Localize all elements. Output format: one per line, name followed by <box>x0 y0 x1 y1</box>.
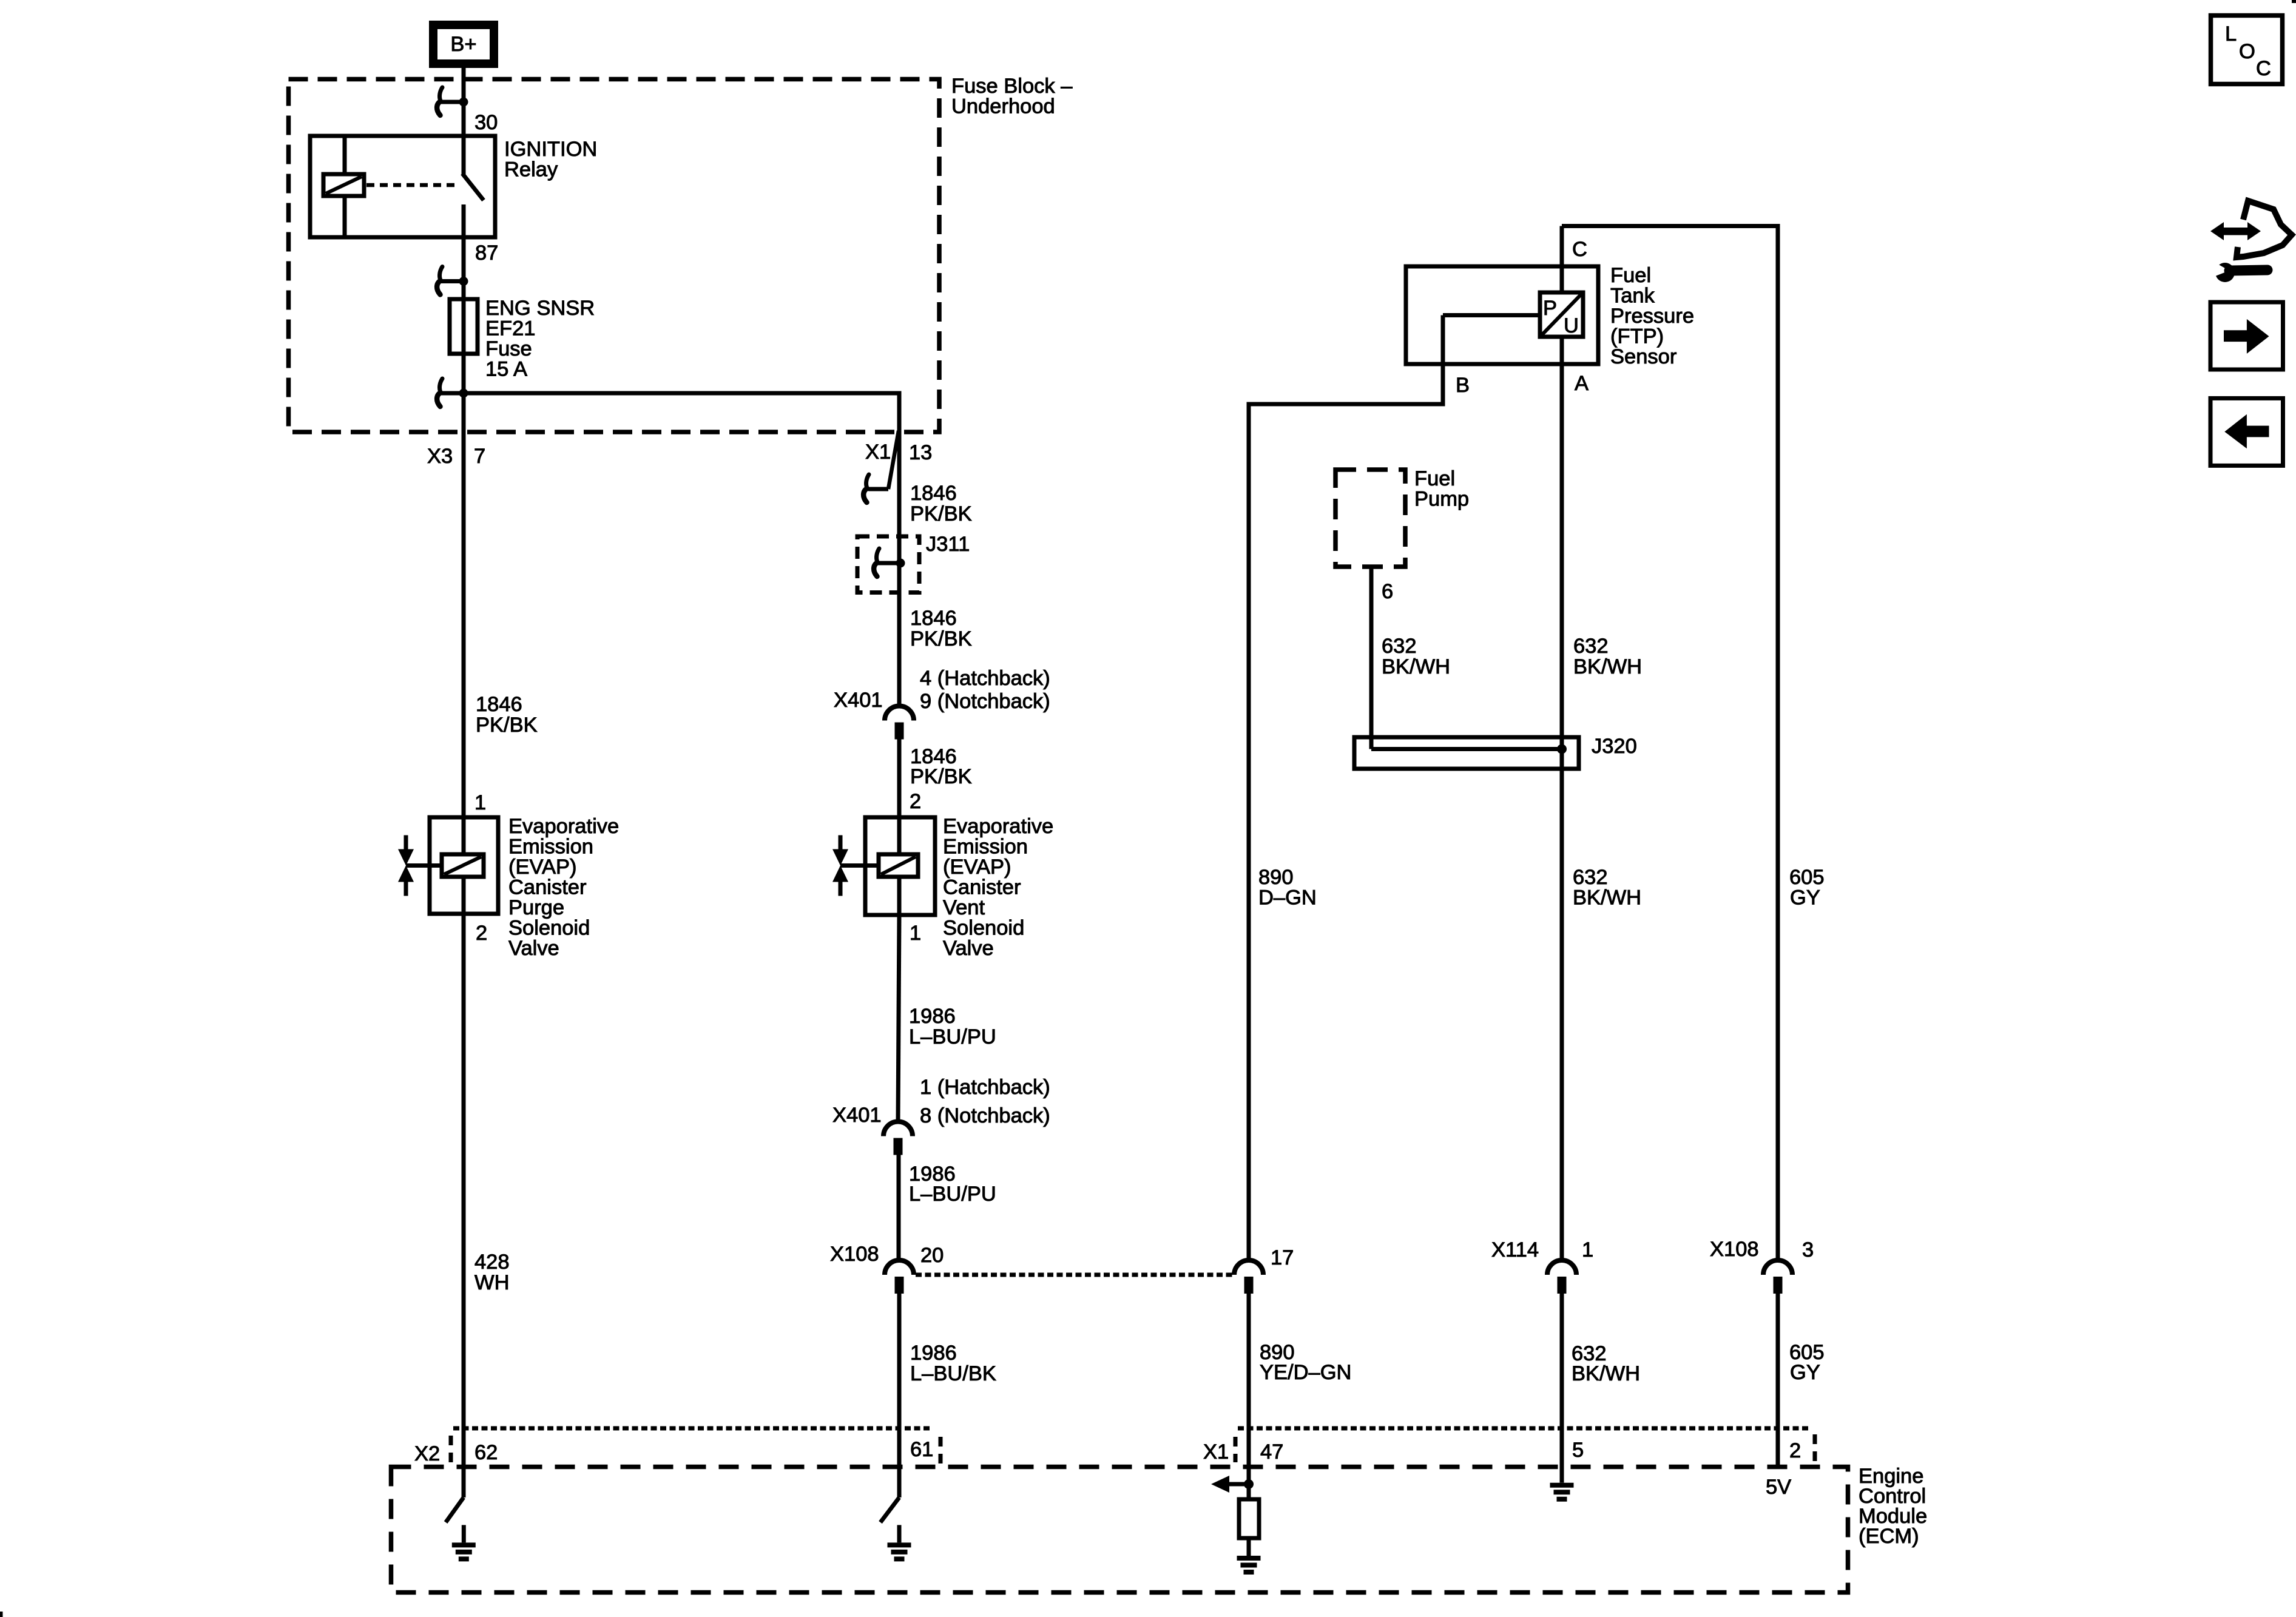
FTP sensor box <box>1406 266 1598 364</box>
dotted connector row X1 <box>1238 1426 1809 1431</box>
svg-text:C: C <box>2256 57 2271 80</box>
wire A pin <box>1560 337 1564 1260</box>
connector X114 1 <box>1547 1260 1576 1294</box>
svg-text:Fuel: Fuel <box>1610 264 1651 287</box>
svg-text:632: 632 <box>1573 866 1608 889</box>
ECM label <box>1859 1465 1927 1548</box>
svg-text:2: 2 <box>910 790 921 813</box>
relay label <box>504 138 597 181</box>
svg-text:Canister: Canister <box>508 876 586 899</box>
svg-text:J311: J311 <box>926 533 970 556</box>
svg-text:1: 1 <box>474 791 486 814</box>
relay coil <box>323 174 364 196</box>
svg-text:7: 7 <box>474 445 485 468</box>
svg-text:YE/D–GN: YE/D–GN <box>1260 1361 1351 1384</box>
svg-text:A: A <box>1575 372 1589 395</box>
wire 890 YE/D-GN label <box>1260 1341 1351 1384</box>
svg-text:X1: X1 <box>1203 1440 1229 1463</box>
ground pin 62 <box>452 1545 476 1559</box>
back arrow icon <box>2210 398 2283 465</box>
svg-text:IGNITION: IGNITION <box>504 138 597 161</box>
svg-text:U: U <box>1564 314 1579 337</box>
wire 1846 PK/BK label left <box>476 693 538 737</box>
connector X401 lower <box>883 1122 913 1155</box>
FTP sensor top rail wire <box>1562 224 1780 228</box>
X114 1 labels <box>1491 1238 1593 1261</box>
svg-text:87: 87 <box>475 241 498 265</box>
svg-text:890: 890 <box>1258 866 1294 889</box>
svg-text:6: 6 <box>1382 580 1393 603</box>
wire 1986 L-BU/BK label <box>910 1342 996 1385</box>
wire branch down to X1 13 <box>897 391 902 707</box>
vent valve symbol <box>832 836 848 896</box>
svg-text:X108: X108 <box>830 1243 879 1266</box>
svg-text:9 (Notchback): 9 (Notchback) <box>920 690 1050 713</box>
wire X401 to X108 <box>897 1154 901 1260</box>
dotted connector line X108 to 17 <box>916 1273 1234 1277</box>
svg-text:5V: 5V <box>1766 1476 1791 1499</box>
ECM switch to ground pin 62 <box>446 1497 464 1542</box>
svg-text:Fuse Block –: Fuse Block – <box>951 75 1073 98</box>
fuse block underhood dashed box <box>289 79 940 433</box>
ECM dashed box <box>391 1467 1848 1593</box>
forward arrow icon <box>2210 302 2283 370</box>
ECM switch to ground pin 61 <box>880 1497 899 1542</box>
connector X108 3 <box>1763 1260 1792 1294</box>
svg-text:X3: X3 <box>427 445 453 468</box>
connector X1 13 terminal <box>863 431 899 502</box>
svg-text:Tank: Tank <box>1610 285 1655 308</box>
svg-text:B+: B+ <box>450 33 476 56</box>
svg-text:X401: X401 <box>834 689 883 712</box>
svg-text:(FTP): (FTP) <box>1610 325 1664 348</box>
X401 lower labels <box>832 1076 1050 1127</box>
dotted connector row X2 <box>453 1426 933 1431</box>
wire X401 to EVAP vent <box>897 739 902 818</box>
node X2 62 labels <box>414 1441 498 1465</box>
svg-text:X401: X401 <box>832 1104 882 1127</box>
svg-text:3: 3 <box>1802 1238 1814 1261</box>
node X1 47 labels <box>1203 1440 1283 1463</box>
svg-text:GY: GY <box>1790 1361 1820 1384</box>
svg-text:X1: X1 <box>865 441 891 464</box>
svg-text:BK/WH: BK/WH <box>1573 886 1641 910</box>
fuse label <box>485 297 595 381</box>
splice pack J320 <box>1354 737 1579 769</box>
svg-text:Valve: Valve <box>943 937 994 960</box>
svg-text:1846: 1846 <box>910 482 957 505</box>
svg-text:62: 62 <box>474 1441 498 1464</box>
svg-text:1986: 1986 <box>910 1342 957 1365</box>
LOC icon box <box>2211 16 2283 84</box>
node X3 7 labels <box>427 445 485 468</box>
svg-text:20: 20 <box>920 1244 944 1267</box>
FTP sensor label <box>1610 264 1694 368</box>
svg-text:X108: X108 <box>1710 1238 1759 1261</box>
svg-text:Evaporative: Evaporative <box>943 815 1053 838</box>
wire fuse output branch right <box>464 391 902 396</box>
dotted stub right X1 group <box>1813 1434 1817 1461</box>
wire 632 to ECM 5 <box>1560 1293 1564 1482</box>
dotted stub left X2 <box>449 1436 453 1468</box>
svg-text:Fuse: Fuse <box>485 337 532 360</box>
page corner mark bottom left <box>0 1612 3 1617</box>
svg-text:B: B <box>1456 374 1470 397</box>
svg-text:Sensor: Sensor <box>1610 345 1676 368</box>
connector clip pin 30 <box>437 87 468 115</box>
svg-text:Relay: Relay <box>504 158 558 181</box>
svg-text:632: 632 <box>1573 635 1609 658</box>
battery feed B+ terminal <box>433 25 494 64</box>
wire 1846 PK/BK label third <box>910 745 972 788</box>
svg-text:(EVAP): (EVAP) <box>508 856 576 879</box>
svg-text:Canister: Canister <box>943 876 1021 899</box>
ground pin 5 <box>1560 1469 1564 1483</box>
svg-text:Emission: Emission <box>508 836 593 859</box>
wire 605 GY vertical <box>1776 224 1780 1260</box>
wire 605 GY label mid <box>1789 866 1825 910</box>
dotted stub left X1 <box>1234 1437 1238 1462</box>
svg-text:605: 605 <box>1789 866 1825 889</box>
wire vent to X401 lower <box>898 915 899 1122</box>
svg-text:Fuel: Fuel <box>1414 467 1455 490</box>
svg-text:PK/BK: PK/BK <box>910 627 972 650</box>
svg-text:GY: GY <box>1790 886 1820 910</box>
wire 632 BK/WH label lower <box>1572 1342 1640 1385</box>
svg-text:15 A: 15 A <box>485 358 527 381</box>
wire C pin <box>1560 226 1564 294</box>
svg-text:Valve: Valve <box>508 937 559 960</box>
svg-text:1: 1 <box>1582 1238 1593 1261</box>
wire 1846 PK/BK label below J311 <box>910 607 972 650</box>
svg-text:47: 47 <box>1260 1440 1283 1463</box>
fuse ENG SNSR EF21 <box>450 299 478 354</box>
fuse block label <box>951 75 1073 118</box>
svg-text:Solenoid: Solenoid <box>508 917 590 940</box>
svg-text:1846: 1846 <box>910 607 957 630</box>
splice J311 dashed box <box>857 536 919 593</box>
svg-text:BK/WH: BK/WH <box>1572 1362 1640 1385</box>
svg-text:(EVAP): (EVAP) <box>943 856 1011 879</box>
wire 632 BK/WH label pump <box>1382 635 1450 678</box>
svg-text:2: 2 <box>476 922 487 945</box>
wire fuel pump to J320 <box>1369 567 1374 749</box>
X401 upper labels <box>834 667 1050 713</box>
vent solenoid label <box>943 815 1053 960</box>
svg-text:13: 13 <box>909 441 932 464</box>
svg-text:WH: WH <box>474 1271 509 1294</box>
svg-text:Underhood: Underhood <box>951 95 1055 118</box>
svg-text:1846: 1846 <box>476 693 522 716</box>
svg-text:O: O <box>2239 40 2255 63</box>
wire 428 WH left to ECM <box>462 914 466 1497</box>
wire 1986 L-BU/PU label lower <box>909 1163 996 1206</box>
splice J311 clip <box>874 549 905 576</box>
svg-text:BK/WH: BK/WH <box>1573 655 1642 678</box>
connector clip fuse output <box>437 379 468 407</box>
node X1 13 labels <box>865 441 932 464</box>
svg-text:P: P <box>1543 297 1557 320</box>
svg-text:Emission: Emission <box>943 836 1028 859</box>
svg-text:632: 632 <box>1382 635 1417 658</box>
purge solenoid label <box>508 815 619 960</box>
svg-text:Purge: Purge <box>508 896 564 919</box>
purge valve symbol <box>398 836 414 896</box>
svg-text:Evaporative: Evaporative <box>508 815 619 838</box>
wire 890 vertical <box>1247 402 1251 1261</box>
svg-text:Pump: Pump <box>1414 488 1469 511</box>
relay internal dashed link <box>366 183 456 187</box>
ground pin 47 <box>1237 1558 1261 1572</box>
ground pin 61 <box>888 1545 911 1559</box>
data link connector icon <box>2210 201 2292 282</box>
wire 890 D-GN label <box>1258 866 1317 910</box>
relay switch <box>462 136 484 237</box>
svg-text:L–BU/BK: L–BU/BK <box>910 1362 996 1385</box>
svg-text:X2: X2 <box>414 1442 440 1465</box>
svg-text:PK/BK: PK/BK <box>476 714 538 737</box>
svg-text:X114: X114 <box>1491 1238 1539 1261</box>
dotted stub right X2 group <box>939 1437 943 1463</box>
svg-text:(ECM): (ECM) <box>1859 1525 1919 1548</box>
connector clip pin 87 <box>437 267 468 295</box>
svg-text:Pressure: Pressure <box>1610 305 1694 328</box>
wire 605 to ECM 2 <box>1776 1291 1780 1469</box>
wire 632 BK/WH label A upper <box>1573 635 1642 678</box>
wire 1986 L-BU/PU label upper <box>909 1005 996 1048</box>
svg-text:4 (Hatchback): 4 (Hatchback) <box>920 667 1050 690</box>
X108 20 labels <box>830 1243 944 1267</box>
EVAP canister purge solenoid valve box <box>406 817 498 914</box>
wire B pin <box>1247 316 1542 407</box>
svg-text:5: 5 <box>1572 1439 1584 1462</box>
ECM internal resistor <box>1239 1484 1259 1556</box>
svg-text:30: 30 <box>474 111 498 134</box>
svg-text:L–BU/PU: L–BU/PU <box>909 1183 996 1206</box>
svg-text:8 (Notchback): 8 (Notchback) <box>920 1104 1050 1127</box>
wire 428 WH label <box>474 1251 510 1294</box>
fuel pump dashed box <box>1335 470 1405 567</box>
svg-text:J320: J320 <box>1592 735 1637 758</box>
svg-text:2: 2 <box>1789 1439 1801 1462</box>
EVAP canister vent solenoid valve box <box>840 817 935 915</box>
page corner mark <box>2292 0 2296 3</box>
svg-text:PK/BK: PK/BK <box>910 502 972 525</box>
relay IGNITION box <box>310 136 495 237</box>
svg-text:1986: 1986 <box>909 1005 956 1028</box>
fuel pump label <box>1414 467 1469 511</box>
connector pin 17 <box>1234 1260 1263 1294</box>
wire B+ to relay <box>462 64 466 137</box>
wire X108 to ECM pin 61 <box>897 1293 902 1497</box>
svg-text:61: 61 <box>910 1438 933 1461</box>
svg-text:PK/BK: PK/BK <box>910 765 972 788</box>
wire 1846 PK/BK label upper <box>910 482 972 525</box>
wire 632 BK/WH label mid <box>1573 866 1641 910</box>
wire 605 GY label lower <box>1789 1341 1825 1384</box>
svg-text:L–BU/PU: L–BU/PU <box>909 1025 996 1048</box>
connector X401 upper <box>885 706 914 740</box>
svg-text:EF21: EF21 <box>485 317 535 340</box>
svg-text:BK/WH: BK/WH <box>1382 655 1450 678</box>
svg-text:428: 428 <box>474 1251 510 1274</box>
FTP P/U transducer <box>1540 292 1583 337</box>
svg-text:1 (Hatchback): 1 (Hatchback) <box>920 1076 1050 1099</box>
svg-text:ENG SNSR: ENG SNSR <box>485 297 595 320</box>
X108 3 labels <box>1710 1238 1814 1261</box>
svg-text:D–GN: D–GN <box>1258 886 1317 910</box>
ECM pin 47 node junction <box>1244 1479 1254 1489</box>
wire relay to fuse <box>462 237 466 396</box>
wire 890 to ECM 47 <box>1247 1293 1251 1484</box>
ECM signal arrow <box>1211 1476 1249 1493</box>
svg-text:1: 1 <box>910 922 921 945</box>
svg-text:Solenoid: Solenoid <box>943 917 1024 940</box>
svg-text:Vent: Vent <box>943 896 985 919</box>
svg-text:L: L <box>2225 22 2237 46</box>
wire left branch down <box>462 393 466 817</box>
connector X108 20 <box>885 1260 914 1294</box>
svg-text:C: C <box>1572 238 1587 261</box>
svg-text:17: 17 <box>1271 1246 1294 1269</box>
